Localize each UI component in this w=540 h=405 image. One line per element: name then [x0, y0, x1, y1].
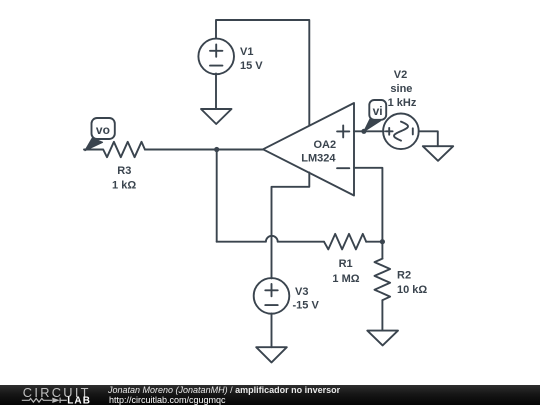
wire [354, 130, 384, 132]
wire [366, 241, 382, 243]
svg-text:V2: V2 [394, 69, 407, 81]
svg-text:R3: R3 [117, 165, 131, 177]
svg-text:V1: V1 [240, 46, 253, 58]
wire [217, 236, 324, 242]
footer bar [0, 385, 540, 405]
svg-text:1 kHz: 1 kHz [388, 97, 417, 109]
svg-text:LAB: LAB [67, 396, 91, 405]
voltage source V3 [254, 278, 290, 314]
node vi flag [364, 100, 386, 132]
svg-text:1 kΩ: 1 kΩ [112, 180, 136, 192]
resistor R1 [324, 234, 366, 250]
op-amp OA2 [263, 103, 354, 196]
node junction [380, 239, 385, 244]
wire [216, 150, 218, 242]
wire [145, 149, 263, 151]
ground [367, 331, 398, 346]
svg-text:10 kΩ: 10 kΩ [397, 284, 427, 296]
svg-text:R2: R2 [397, 270, 411, 282]
svg-text:-15 V: -15 V [293, 300, 320, 312]
ground [256, 347, 287, 362]
wire [354, 168, 382, 242]
voltage source V1 [198, 39, 234, 75]
svg-text:vo: vo [96, 123, 110, 137]
svg-text:V3: V3 [295, 286, 308, 298]
ground [201, 109, 232, 124]
svg-text:1 MΩ: 1 MΩ [332, 273, 359, 285]
wire [215, 74, 217, 110]
logo circuit glyph [22, 398, 67, 403]
wire [271, 313, 273, 347]
resistor R3 [84, 142, 145, 157]
ground [423, 146, 453, 161]
svg-text:R1: R1 [339, 258, 353, 270]
resistor R2 [375, 242, 391, 331]
svg-text:15 V: 15 V [240, 60, 263, 72]
wire [272, 173, 310, 279]
svg-text:sine: sine [390, 83, 412, 95]
wire [216, 20, 309, 126]
node vi junction [361, 129, 366, 134]
wire [419, 131, 438, 146]
svg-text:OA2: OA2 [313, 139, 336, 151]
voltage source V2 [383, 114, 419, 150]
node vo flag [85, 118, 115, 151]
svg-text:LM324: LM324 [301, 153, 336, 165]
svg-text:vi: vi [373, 104, 383, 118]
node junction [214, 147, 219, 152]
